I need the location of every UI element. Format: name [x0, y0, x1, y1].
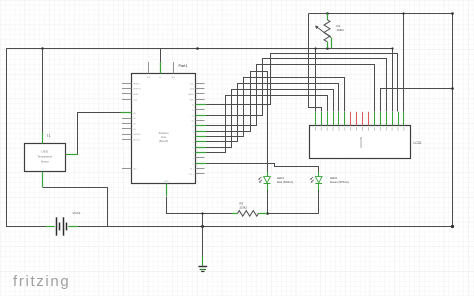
wire D7 bus (Arduino to LCD pin 14) [196, 96, 328, 153]
resistor R1 potentiometer 10k [315, 13, 332, 48]
wire LM35 Vs to 5V rail [42, 48, 44, 132]
wire Arduino 5V to rail [160, 48, 162, 62]
wire D4 bus (Arduino to LCD pin 11) [196, 78, 345, 137]
svg-text:Temperature: Temperature [38, 155, 53, 159]
op-amp substitute: LCD display LCD1 (HD44780) [310, 126, 411, 159]
wire bottom battery rail [6, 226, 46, 228]
pin Arduino GND (bottom, connected) [166, 184, 168, 197]
transistor substitute: LM35 temperature sensor T1 [25, 144, 66, 172]
svg-text:220Ω: 220Ω [240, 206, 248, 210]
node RW tap on right vertical [451, 87, 454, 90]
node GND wire junction [201, 212, 203, 214]
svg-text:LM35: LM35 [42, 150, 49, 154]
wire LM35 GND to bottom rail [43, 188, 108, 227]
wire RS bus (Arduino to LCD pin 4) [196, 59, 387, 116]
wire E bus (Arduino to LCD pin 6) [196, 65, 375, 126]
svg-text:AREF: AREF [133, 93, 139, 96]
pin Arduino N/C [122, 168, 132, 170]
node pot bottom on 5V rail [326, 47, 329, 50]
LED LED1 [258, 172, 270, 190]
pin LM35 Vout (right) [66, 154, 78, 156]
wire LED2 from Arduino [196, 164, 319, 177]
battery VCC1 [46, 217, 78, 235]
node bottom-right corner [451, 225, 454, 228]
svg-text:10kΩ: 10kΩ [337, 28, 345, 32]
svg-text:fritzing: fritzing [13, 273, 70, 290]
pin Arduino 3V3 (top) [148, 62, 150, 74]
svg-text:AREF: AREF [188, 93, 194, 96]
wire LCD VSS from top rail [403, 13, 405, 111]
svg-text:Red (633nm): Red (633nm) [277, 180, 293, 184]
ground [198, 227, 207, 272]
pin group Arduino left (RESET..A5) [122, 83, 132, 85]
svg-text:RESET: RESET [133, 83, 140, 85]
node LED1 cathode junction [266, 212, 269, 215]
node top-right corner [451, 12, 454, 15]
wire Arduino GND to R2 / ground [167, 197, 233, 214]
svg-text:SDA: SDA [190, 88, 195, 91]
svg-text:(Rev3): (Rev3) [159, 139, 168, 143]
svg-text:T1: T1 [47, 134, 51, 138]
svg-text:GND: GND [189, 99, 194, 101]
LED LED2 [310, 172, 322, 190]
wire D6 bus (Arduino to LCD pin 13) [196, 90, 334, 148]
node V0 corner [391, 47, 393, 49]
wire R2 node to bottom rail and ground [202, 213, 204, 226]
pin LM35 +Vs (top) [42, 133, 44, 144]
wire LED1 cathode down [267, 185, 269, 213]
pin group LCD 1-16 [315, 112, 317, 126]
wire D5 bus (Arduino to LCD pin 12) [196, 84, 339, 142]
wire 5V rail with V0 descent [7, 49, 393, 112]
wire LCD LED+ from top rail [309, 14, 322, 112]
wire top GND rail [309, 13, 453, 15]
svg-text:Sensor: Sensor [41, 160, 49, 164]
node VSS tap on GND rail [402, 12, 404, 14]
svg-text:ioref: ioref [133, 99, 137, 101]
pin LM35 GND (bottom) [42, 172, 44, 188]
svg-text:LCD1: LCD1 [414, 141, 422, 145]
svg-text:Green (570nm): Green (570nm) [330, 180, 349, 184]
svg-text:HD44780: HD44780 [359, 136, 363, 148]
svg-text:VCC1: VCC1 [73, 211, 81, 215]
pin Arduino VIN (top) [173, 62, 175, 74]
op-amp substitute: Arduino Uno Part1 [132, 74, 196, 184]
svg-text:N/C: N/C [133, 169, 137, 171]
wire VDD bus (Arduino to LCD pin 2) [196, 54, 398, 112]
node LM35 tap on 5V rail [41, 47, 43, 49]
svg-text:GND: GND [164, 181, 169, 183]
wire LED2 cathode down [318, 185, 320, 213]
resistor R2 220 ohm [232, 211, 267, 217]
svg-text:Part1: Part1 [179, 64, 188, 68]
wire R2 to LED junction [263, 213, 319, 215]
pin Arduino 5V (top, connected) [160, 62, 162, 74]
node bendpoint on 5V rail [196, 47, 199, 50]
svg-text:RESET2: RESET2 [133, 89, 142, 91]
pin group Arduino right (SCL..D0) [196, 83, 205, 85]
wire left vertical (battery to 5V rail) [6, 48, 8, 226]
wire LCD RW from right vertical [381, 89, 453, 112]
wire right vertical (top rail to bottom rail) [452, 13, 454, 226]
node ground tap on bottom rail [201, 225, 204, 228]
node pot top on GND rail [326, 12, 329, 15]
wire LED1 from Arduino [196, 72, 268, 177]
wire LCD LED- from 5V rail [315, 48, 317, 112]
wire LM35 Vout to Arduino A0 [78, 113, 121, 155]
svg-text:A5/SCL: A5/SCL [133, 139, 141, 142]
svg-text:A4/SDA: A4/SDA [133, 133, 141, 136]
node LED- tap on 5V rail [314, 47, 316, 49]
svg-text:VIN: VIN [171, 77, 175, 79]
